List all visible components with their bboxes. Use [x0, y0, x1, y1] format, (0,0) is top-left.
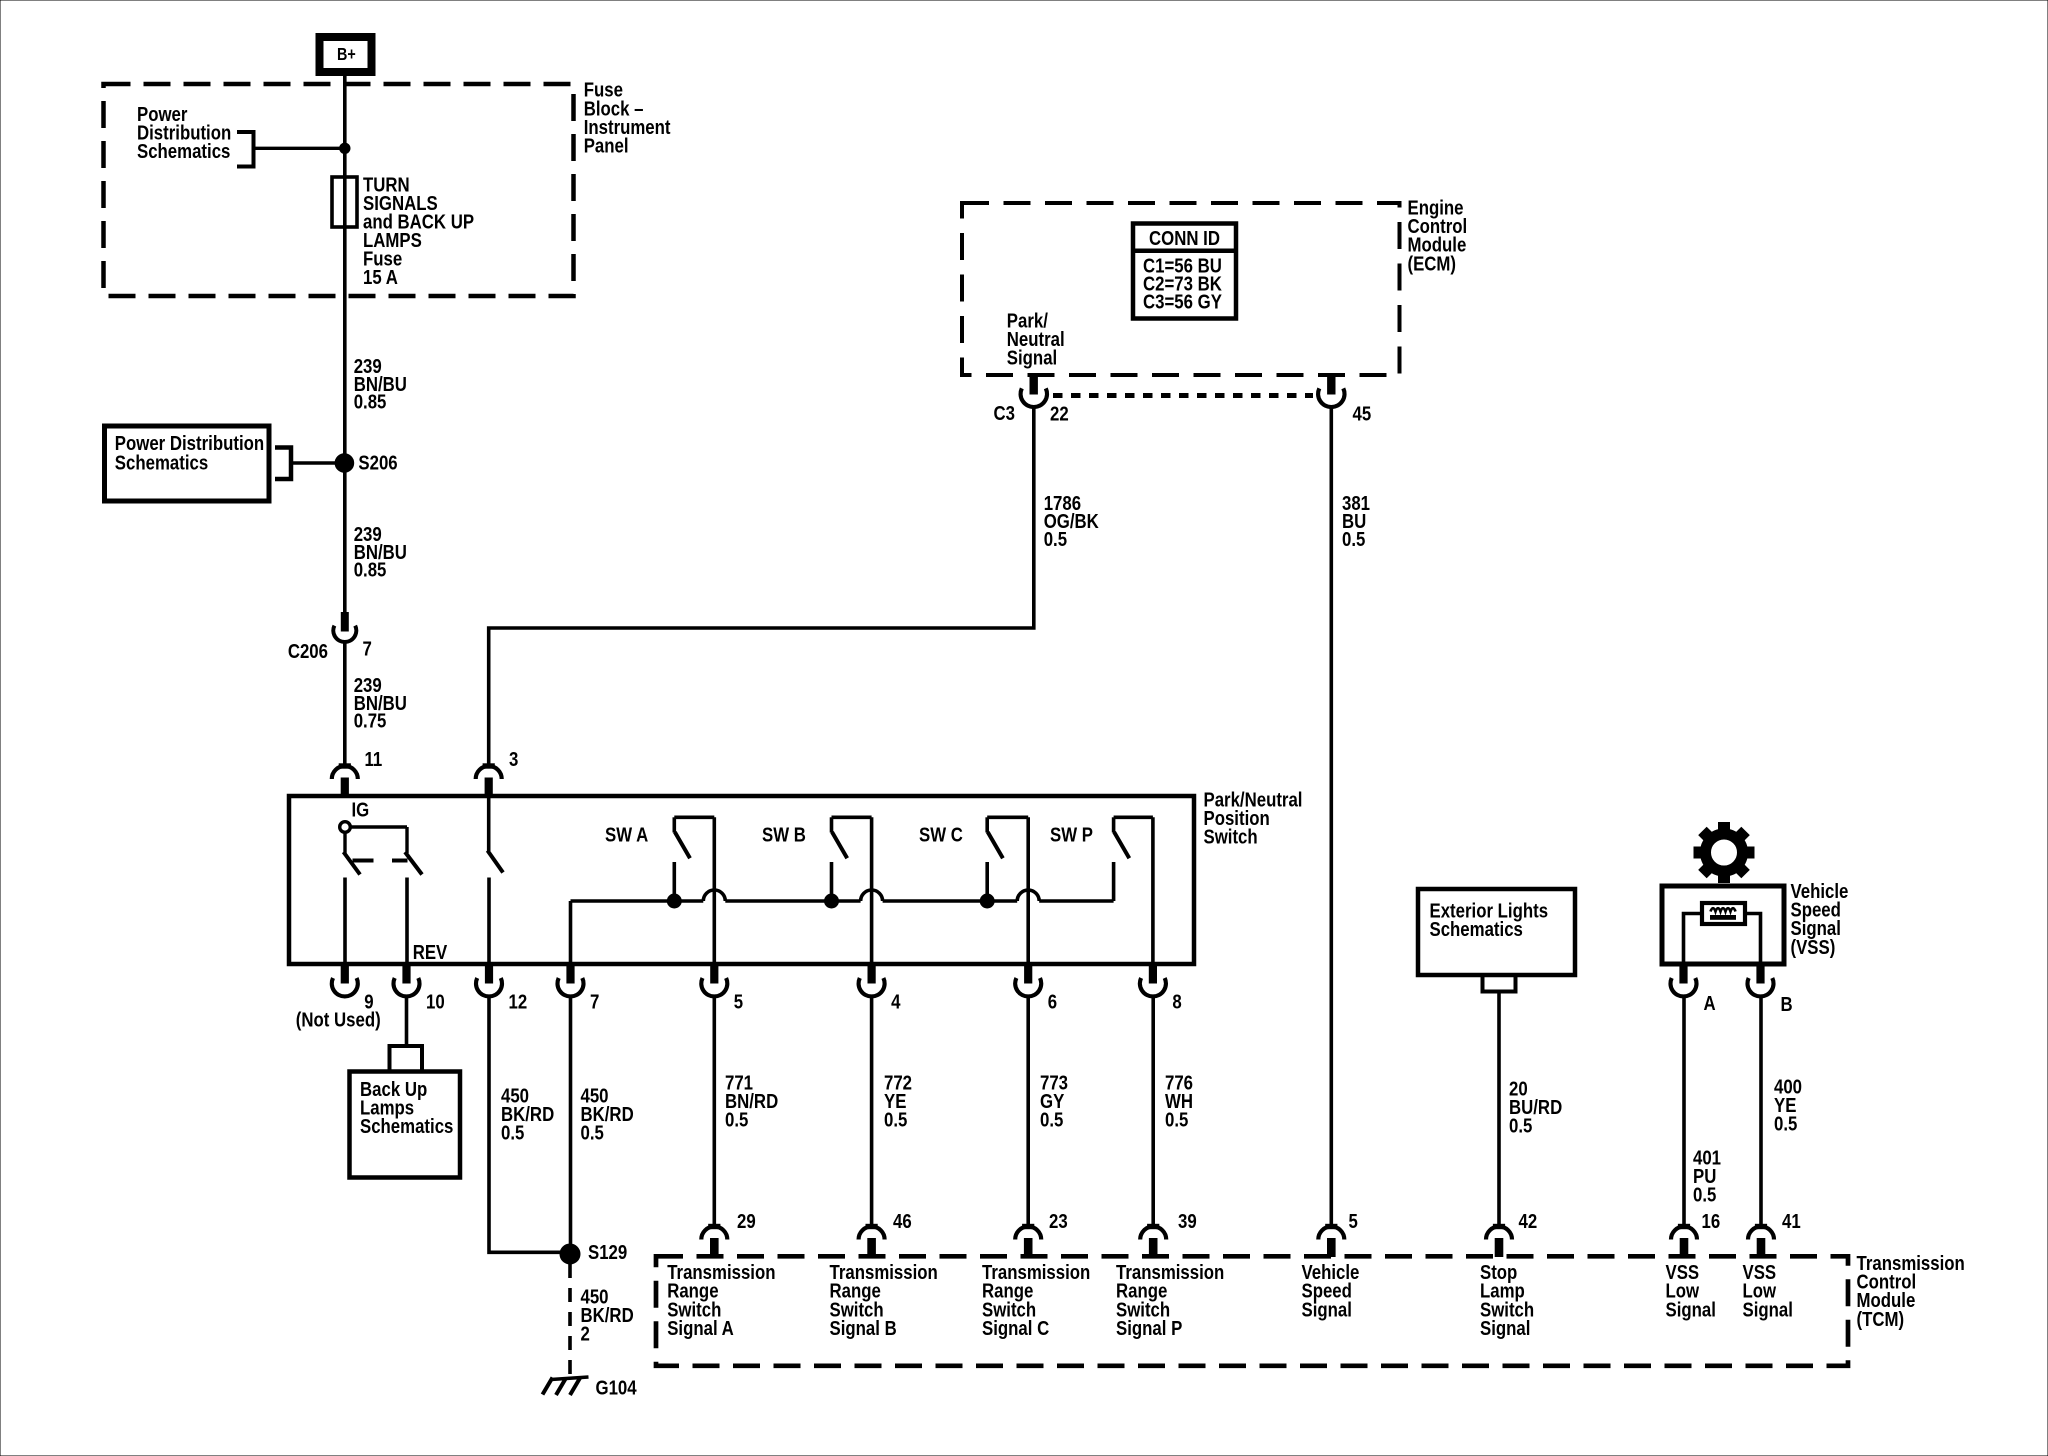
- ground G104: [551, 1377, 589, 1380]
- svg-text:Schematics: Schematics: [137, 139, 230, 162]
- svg-text:22: 22: [1050, 402, 1069, 425]
- svg-text:0.5: 0.5: [725, 1108, 748, 1131]
- TCM connector pin 5: [1318, 1227, 1344, 1240]
- svg-text:Signal: Signal: [1480, 1316, 1530, 1339]
- dashed box Transmission Control Module (TCM): [656, 1256, 1848, 1366]
- connector pin 8 at switch bottom: [1149, 964, 1156, 983]
- wire 239 BN/BU 0.75: [343, 642, 347, 767]
- svg-text:15 A: 15 A: [363, 265, 398, 288]
- wire 450 BK/RD 2 to ground: [568, 1264, 572, 1376]
- power node B+: [320, 37, 372, 72]
- connector pin 3 at switch top: [476, 766, 502, 779]
- table CONN ID: [1133, 224, 1236, 319]
- wire B+ to C206: [343, 76, 347, 613]
- svg-text:Signal C: Signal C: [982, 1316, 1050, 1339]
- switch SW C (blade and contact): [987, 815, 1028, 819]
- svg-text:Signal: Signal: [1302, 1298, 1352, 1321]
- svg-text:SW A: SW A: [605, 823, 649, 846]
- dashed box Engine Control Module (ECM): [962, 203, 1400, 375]
- svg-text:SW P: SW P: [1050, 823, 1093, 846]
- connector pin A of VSS: [1680, 964, 1687, 983]
- splice S129: [560, 1244, 580, 1264]
- wire 401 PU 0.5: [1682, 995, 1686, 1227]
- connector pin 9 at switch bottom: [341, 964, 348, 983]
- svg-text:10: 10: [426, 990, 445, 1013]
- switch SW A (blade and contact): [674, 815, 714, 819]
- svg-text:4: 4: [891, 990, 901, 1013]
- svg-text:41: 41: [1782, 1210, 1801, 1233]
- connector pin 11 at switch top: [332, 766, 358, 779]
- svg-text:23: 23: [1049, 1210, 1068, 1233]
- svg-text:5: 5: [1349, 1210, 1358, 1233]
- bus junction dot SW C: [980, 894, 994, 908]
- dotted connector face line C3: [1053, 393, 1313, 398]
- bus hop over SW A contact: [703, 890, 725, 901]
- svg-text:S206: S206: [358, 451, 397, 474]
- svg-text:0.75: 0.75: [354, 709, 387, 732]
- svg-text:0.5: 0.5: [581, 1121, 604, 1144]
- svg-text:CONN ID: CONN ID: [1149, 227, 1220, 250]
- svg-text:0.5: 0.5: [884, 1108, 907, 1131]
- svg-text:7: 7: [363, 637, 372, 660]
- wire 772 YE 0.5: [870, 995, 874, 1227]
- svg-text:(Not Used): (Not Used): [296, 1008, 381, 1031]
- wire 450 BK/RD 0.5 from pin 7: [569, 995, 573, 1255]
- bracket Exterior Lights Schematics: [1483, 975, 1516, 992]
- dashed box Fuse Block - Instrument Panel: [104, 84, 574, 296]
- switch SW B (blade and contact): [832, 815, 872, 819]
- wire IG contact to pin 9: [343, 878, 347, 965]
- svg-text:3: 3: [509, 747, 518, 770]
- svg-text:11: 11: [365, 747, 383, 770]
- svg-text:7: 7: [590, 990, 599, 1013]
- VSS internal wiring: [1684, 914, 1703, 965]
- wire 450 BK/RD 0.5 from pin 12: [489, 995, 561, 1253]
- svg-text:Signal A: Signal A: [667, 1316, 734, 1339]
- svg-text:46: 46: [893, 1210, 912, 1233]
- svg-text:0.5: 0.5: [501, 1121, 524, 1144]
- connector pin 10 at switch bottom: [403, 964, 410, 983]
- VSS reluctor element: [1702, 903, 1745, 924]
- svg-text:Schematics: Schematics: [360, 1115, 453, 1138]
- svg-text:Signal: Signal: [1743, 1298, 1793, 1321]
- svg-text:C3: C3: [994, 401, 1015, 424]
- svg-text:5: 5: [734, 990, 743, 1013]
- svg-text:B: B: [1781, 993, 1793, 1016]
- bracket to Power Distribution Schematics: [237, 132, 254, 167]
- box Park/Neutral Position Switch: [289, 796, 1194, 964]
- TCM connector pin 42: [1486, 1227, 1512, 1240]
- svg-text:29: 29: [737, 1210, 756, 1233]
- svg-text:G104: G104: [596, 1376, 638, 1399]
- wire 771 BN/RD 0.5: [712, 995, 716, 1227]
- svg-text:Switch: Switch: [1204, 825, 1258, 848]
- svg-text:0.5: 0.5: [1165, 1108, 1188, 1131]
- TCM connector pin 39: [1140, 1227, 1166, 1240]
- bracket Power Distribution Schematics to S206: [275, 448, 291, 480]
- svg-text:0.5: 0.5: [1693, 1183, 1716, 1206]
- svg-text:0.5: 0.5: [1774, 1112, 1797, 1135]
- svg-text:0.5: 0.5: [1342, 527, 1365, 550]
- connector pin 7 at switch bottom: [567, 964, 574, 983]
- box Power Distribution Schematics: [105, 426, 270, 501]
- svg-text:0.5: 0.5: [1040, 1108, 1063, 1131]
- svg-text:45: 45: [1353, 402, 1372, 425]
- svg-text:Schematics: Schematics: [115, 451, 208, 474]
- IG switch wiring: [351, 825, 408, 828]
- box Exterior Lights Schematics: [1418, 889, 1575, 975]
- svg-text:16: 16: [1702, 1210, 1721, 1233]
- svg-text:8: 8: [1172, 990, 1181, 1013]
- connector pin B of VSS: [1757, 964, 1764, 983]
- svg-text:Panel: Panel: [584, 134, 629, 157]
- wire pin 10 to Back Up Lamps: [405, 995, 409, 1047]
- switch SW P (blade and contact): [1114, 815, 1153, 819]
- svg-text:A: A: [1704, 992, 1717, 1015]
- wire REV contact to pin 10: [405, 878, 409, 965]
- svg-text:SW C: SW C: [919, 823, 963, 846]
- svg-text:Signal: Signal: [1007, 346, 1057, 369]
- wire 773 GY 0.5: [1026, 995, 1030, 1227]
- connector pin 4 at switch bottom: [868, 964, 875, 983]
- svg-text:(ECM): (ECM): [1408, 252, 1457, 275]
- svg-text:S129: S129: [588, 1241, 627, 1264]
- svg-text:2: 2: [581, 1322, 590, 1345]
- IG switch blade right (REV): [405, 852, 422, 875]
- in-line connector C206 pin 7: [341, 613, 348, 632]
- bus junction dot SW A: [667, 894, 681, 908]
- svg-text:0.5: 0.5: [1044, 527, 1067, 550]
- IG pin circle: [340, 822, 351, 833]
- bracket Back Up Lamps Schematics: [390, 1046, 423, 1072]
- svg-text:6: 6: [1048, 990, 1057, 1013]
- svg-text:C3=56 GY: C3=56 GY: [1143, 290, 1222, 313]
- svg-text:Schematics: Schematics: [1430, 918, 1523, 941]
- svg-text:0.5: 0.5: [1509, 1114, 1532, 1137]
- connector pin 5 at switch bottom: [711, 964, 718, 983]
- wire 776 WH 0.5: [1151, 995, 1155, 1227]
- fuse TURN SIGNALS and BACK UP LAMPS 15 A: [332, 177, 357, 227]
- ECM connector C3 pin 22: [1030, 376, 1037, 394]
- splice S206: [335, 454, 354, 473]
- bus hop over SW B contact: [861, 890, 883, 901]
- svg-text:B+: B+: [337, 46, 356, 65]
- common bus wire inside switch: [569, 901, 573, 964]
- svg-text:SW B: SW B: [762, 823, 806, 846]
- reverse switch blade (pin 3 to pin 12): [487, 796, 491, 851]
- svg-text:(VSS): (VSS): [1791, 935, 1836, 958]
- TCM connector pin 16: [1671, 1227, 1697, 1240]
- TCM connector pin 29: [701, 1227, 727, 1240]
- svg-text:39: 39: [1178, 1210, 1197, 1233]
- wire 1786 OG/BK 0.5 from pin 22 to switch pin 3: [489, 407, 1034, 767]
- svg-text:Signal B: Signal B: [830, 1316, 897, 1339]
- svg-text:42: 42: [1519, 1210, 1538, 1233]
- svg-text:Signal: Signal: [1666, 1298, 1716, 1321]
- svg-text:Signal P: Signal P: [1116, 1316, 1182, 1339]
- svg-text:C206: C206: [288, 640, 328, 663]
- gear icon of vehicle speed sensor: [1694, 823, 1754, 883]
- svg-text:IG: IG: [352, 798, 370, 821]
- TCM connector pin 23: [1015, 1227, 1041, 1240]
- box Vehicle Speed Signal (VSS) sensor: [1662, 886, 1784, 964]
- svg-text:(TCM): (TCM): [1857, 1307, 1905, 1330]
- svg-text:0.85: 0.85: [354, 390, 387, 413]
- connector pin 6 at switch bottom: [1025, 964, 1032, 983]
- wire 381 BU 0.5 from pin 45 to TCM pin 5: [1330, 407, 1334, 1226]
- junction dot fuse-block tap: [340, 143, 350, 153]
- bus junction dot SW B: [825, 894, 839, 908]
- svg-text:0.85: 0.85: [354, 558, 387, 581]
- box Back Up Lamps Schematics: [350, 1072, 461, 1178]
- TCM connector pin 41: [1748, 1227, 1774, 1240]
- ECM connector pin 45: [1328, 376, 1335, 394]
- svg-text:12: 12: [509, 990, 528, 1013]
- IG switch blade left: [344, 852, 361, 875]
- wire 400 YE 0.5: [1759, 995, 1763, 1227]
- bus hop over SW C contact: [1017, 890, 1039, 901]
- svg-text:REV: REV: [413, 941, 448, 964]
- connector pin 12 at switch bottom: [485, 964, 492, 983]
- TCM connector pin 46: [859, 1227, 885, 1240]
- wire 20 BU/RD 0.5: [1497, 992, 1501, 1227]
